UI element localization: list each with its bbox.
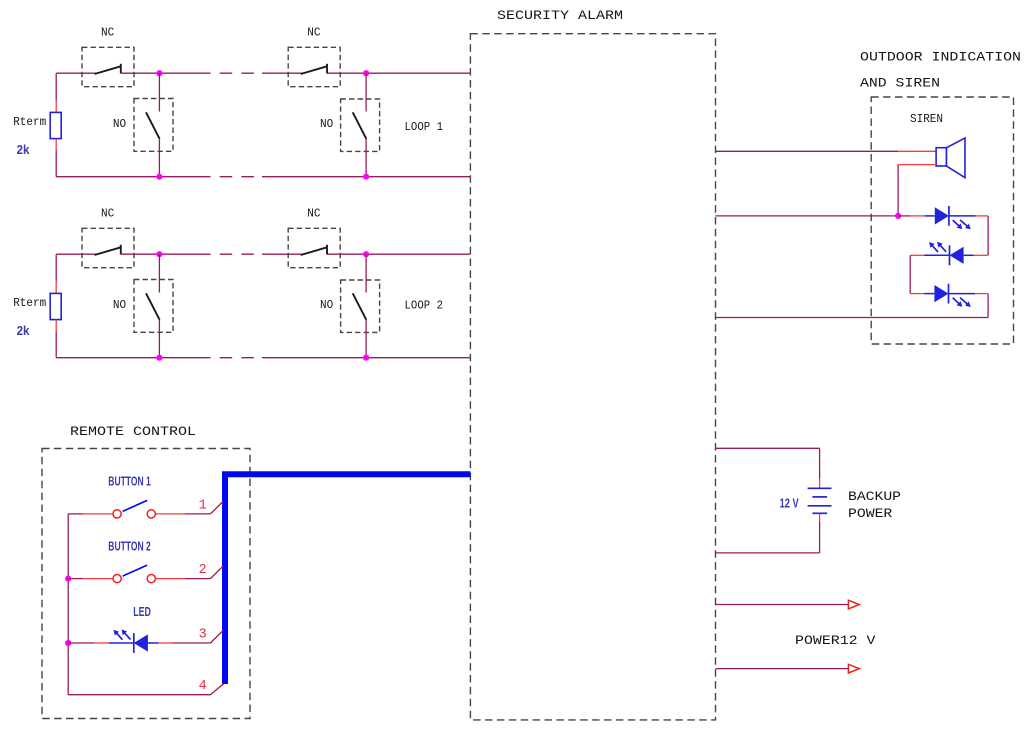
svg-text:LED: LED xyxy=(133,605,151,619)
junction (LOOP 1) xyxy=(156,70,162,76)
svg-text:NC: NC xyxy=(307,207,320,221)
NC switch 1 (LOOP 2) xyxy=(82,228,134,267)
junction bottom 2 (LOOP 2) xyxy=(363,355,369,361)
arrow power out 2 xyxy=(848,664,859,673)
NO switch 2 (LOOP 2) xyxy=(341,254,380,358)
svg-text:12 V: 12 V xyxy=(780,496,800,510)
svg-text:LOOP 1: LOOP 1 xyxy=(405,120,444,134)
LED D3 (outdoor, pointing left) xyxy=(910,245,988,265)
wire bottom of LOOP 1 xyxy=(56,176,470,178)
junction (LOOP 2) xyxy=(156,251,162,257)
NC switch 2 (LOOP 2) xyxy=(288,228,340,267)
wire pin 3 into bus xyxy=(210,631,223,643)
wire top of LOOP 2 xyxy=(56,253,470,255)
svg-text:LOOP 2: LOOP 2 xyxy=(405,298,444,312)
svg-text:NO: NO xyxy=(320,298,333,312)
svg-text:POWER: POWER xyxy=(848,506,893,521)
wire LED chain right drop 1 xyxy=(987,216,989,255)
wire remote left bus xyxy=(67,514,69,695)
svg-text:NC: NC xyxy=(307,26,320,40)
svg-text:Rterm: Rterm xyxy=(13,296,46,310)
svg-text:NC: NC xyxy=(101,26,114,40)
battery GB1 12V xyxy=(808,488,832,513)
svg-text:4: 4 xyxy=(199,679,207,694)
junction 2 (LOOP 1) xyxy=(363,70,369,76)
svg-text:1: 1 xyxy=(199,498,207,513)
junction outdoor xyxy=(895,213,901,219)
wire power out 1 xyxy=(716,604,849,606)
svg-text:3: 3 xyxy=(199,628,207,643)
wire to siren xyxy=(716,150,937,152)
LED D3 emission arrows xyxy=(929,242,946,252)
svg-text:AND SIREN: AND SIREN xyxy=(860,76,940,91)
siren speaker LS1 xyxy=(936,138,965,178)
wire to battery + xyxy=(716,448,820,488)
resistor Rterm (LOOP 2) xyxy=(50,254,61,358)
svg-text:SIREN: SIREN xyxy=(910,112,943,126)
pushbutton BUTTON 1 xyxy=(68,500,210,518)
svg-text:NO: NO xyxy=(113,117,126,131)
svg-text:2: 2 xyxy=(199,563,207,578)
NC switch 1 (LOOP 1) xyxy=(82,47,134,86)
svg-text:NO: NO xyxy=(320,117,333,131)
NO switch 1 (LOOP 2) xyxy=(134,254,173,358)
wire siren return xyxy=(898,165,936,216)
remote control box xyxy=(42,449,250,719)
outdoor indication box xyxy=(871,97,1013,344)
svg-text:OUTDOOR INDICATION: OUTDOOR INDICATION xyxy=(860,50,1021,65)
NC switch 2 (LOOP 1) xyxy=(288,47,340,86)
svg-text:2k: 2k xyxy=(17,143,30,157)
svg-text:Rterm: Rterm xyxy=(13,115,46,129)
wire LED chain right drop 2 xyxy=(987,294,989,318)
LED D2 emission arrows xyxy=(953,220,971,229)
wire power out 2 xyxy=(716,668,849,670)
junction remote LED row xyxy=(65,640,71,646)
junction remote row2 xyxy=(65,576,71,582)
svg-text:POWER12 V: POWER12 V xyxy=(795,633,876,648)
pushbutton BUTTON 2 xyxy=(68,565,210,583)
wire from battery - xyxy=(716,513,820,553)
svg-text:2k: 2k xyxy=(17,324,30,338)
svg-text:BUTTON 1: BUTTON 1 xyxy=(108,475,150,489)
cable bus (thick blue) xyxy=(222,471,470,684)
svg-text:NO: NO xyxy=(113,298,126,312)
wire pin 2 into bus xyxy=(210,566,223,578)
junction 2 (LOOP 2) xyxy=(363,251,369,257)
wire pin 1 into bus xyxy=(210,502,223,514)
svg-text:NC: NC xyxy=(101,207,114,221)
svg-text:BUTTON 2: BUTTON 2 xyxy=(108,539,150,553)
LED D4 emission arrows xyxy=(953,298,971,307)
svg-text:BACKUP: BACKUP xyxy=(848,489,901,504)
security alarm unit box xyxy=(470,34,715,720)
wire to outdoor LEDs xyxy=(716,215,899,217)
arrow power out 1 xyxy=(848,600,859,609)
junction bottom 1 (LOOP 1) xyxy=(156,174,162,180)
wire pin 4 xyxy=(68,684,224,695)
junction bottom 2 (LOOP 1) xyxy=(363,174,369,180)
LED D1 emission arrows xyxy=(114,630,131,640)
svg-text:REMOTE CONTROL: REMOTE CONTROL xyxy=(70,424,196,439)
junction bottom 1 (LOOP 2) xyxy=(156,355,162,361)
LED D4 (outdoor, pointing right) xyxy=(910,284,988,304)
wire bottom of LOOP 2 xyxy=(56,357,470,359)
wire outdoor return xyxy=(716,317,989,319)
NO switch 1 (LOOP 1) xyxy=(134,73,173,177)
LED D2 (outdoor, pointing right) xyxy=(898,215,911,217)
resistor Rterm (LOOP 1) xyxy=(50,73,61,177)
wire LED chain left drop xyxy=(909,255,911,293)
LED D1 (remote, pointing left) xyxy=(68,633,210,653)
wire top of LOOP 1 xyxy=(56,72,470,74)
NO switch 2 (LOOP 1) xyxy=(341,73,380,177)
svg-text:SECURITY ALARM: SECURITY ALARM xyxy=(497,8,623,23)
